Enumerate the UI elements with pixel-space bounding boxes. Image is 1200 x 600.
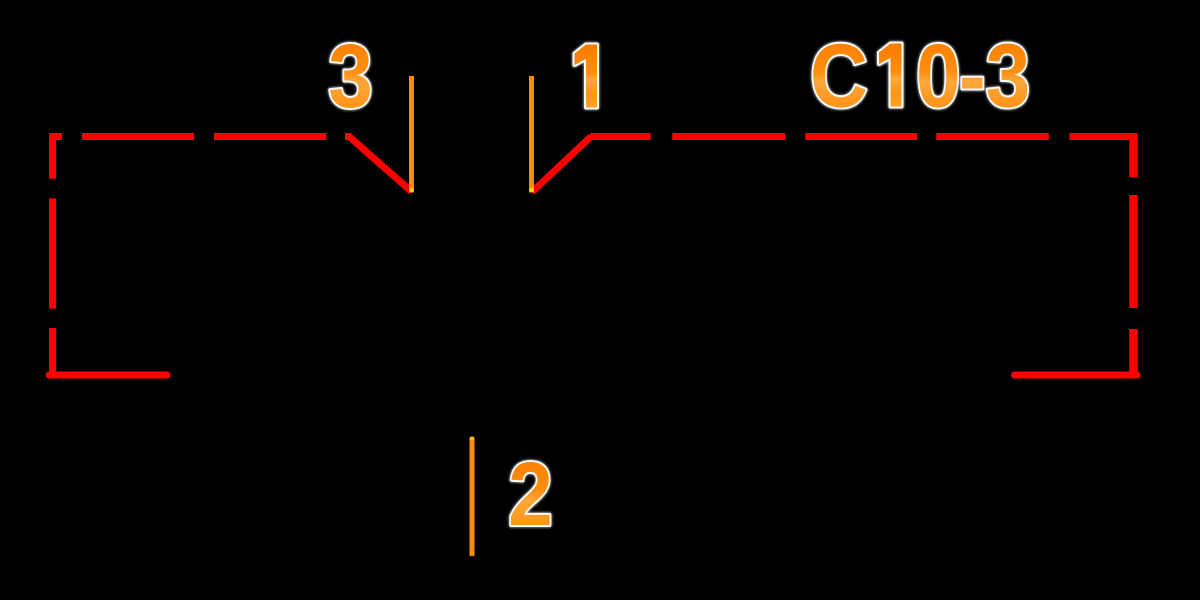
switch C10-3 dashed outline: top edge left dashes: [49, 134, 1137, 376]
wire bottom-right stub: [1015, 372, 1138, 379]
pin number 3: [328, 27, 373, 127]
pin 1 lead: [529, 76, 534, 193]
wire right vertical dash 1: [1129, 134, 1138, 178]
pin number 1: [575, 45, 598, 108]
reference designator C10-3: 0: [916, 26, 961, 126]
node pin3 contact tip: [409, 188, 413, 192]
pin 2 lead: [470, 437, 475, 556]
wire left vertical dash 3: [49, 328, 56, 375]
node pin1 contact tip: [529, 188, 533, 192]
pin number 2: [508, 445, 553, 545]
wire slant from pin 1: [532, 137, 591, 193]
wire right vertical dash 3: [1129, 329, 1138, 375]
reference designator C10-3: 1: [879, 44, 902, 107]
wire bottom-left stub: [49, 372, 167, 379]
pin 3 lead: [409, 76, 414, 193]
wire right vertical dash 2: [1129, 195, 1138, 308]
wire left vertical dash 1: [49, 134, 56, 179]
wire top dash 3: [214, 133, 326, 140]
svg-text:0: 0: [916, 26, 961, 126]
wire top-left corner stub: [49, 133, 62, 140]
wire top-right corner stub: [1070, 133, 1138, 140]
node pin2 top tip: [470, 437, 474, 441]
wire top-right dash 2: [672, 133, 785, 140]
wire slant to pin 3 (moving contact): [345, 137, 412, 192]
reference designator C10-3: C: [810, 26, 868, 126]
wire left vertical dash 2: [49, 198, 56, 308]
reference designator C10-3: -3: [959, 26, 1030, 126]
wire top-right dash 1: [590, 133, 651, 140]
wire top dash 2: [82, 133, 194, 140]
svg-text:3: 3: [328, 27, 373, 127]
svg-text:-3: -3: [959, 26, 1030, 126]
wire top-right dash 3: [805, 133, 917, 140]
wire top-right dash 4: [936, 133, 1049, 140]
svg-text:2: 2: [508, 445, 553, 545]
svg-text:C: C: [810, 26, 868, 126]
